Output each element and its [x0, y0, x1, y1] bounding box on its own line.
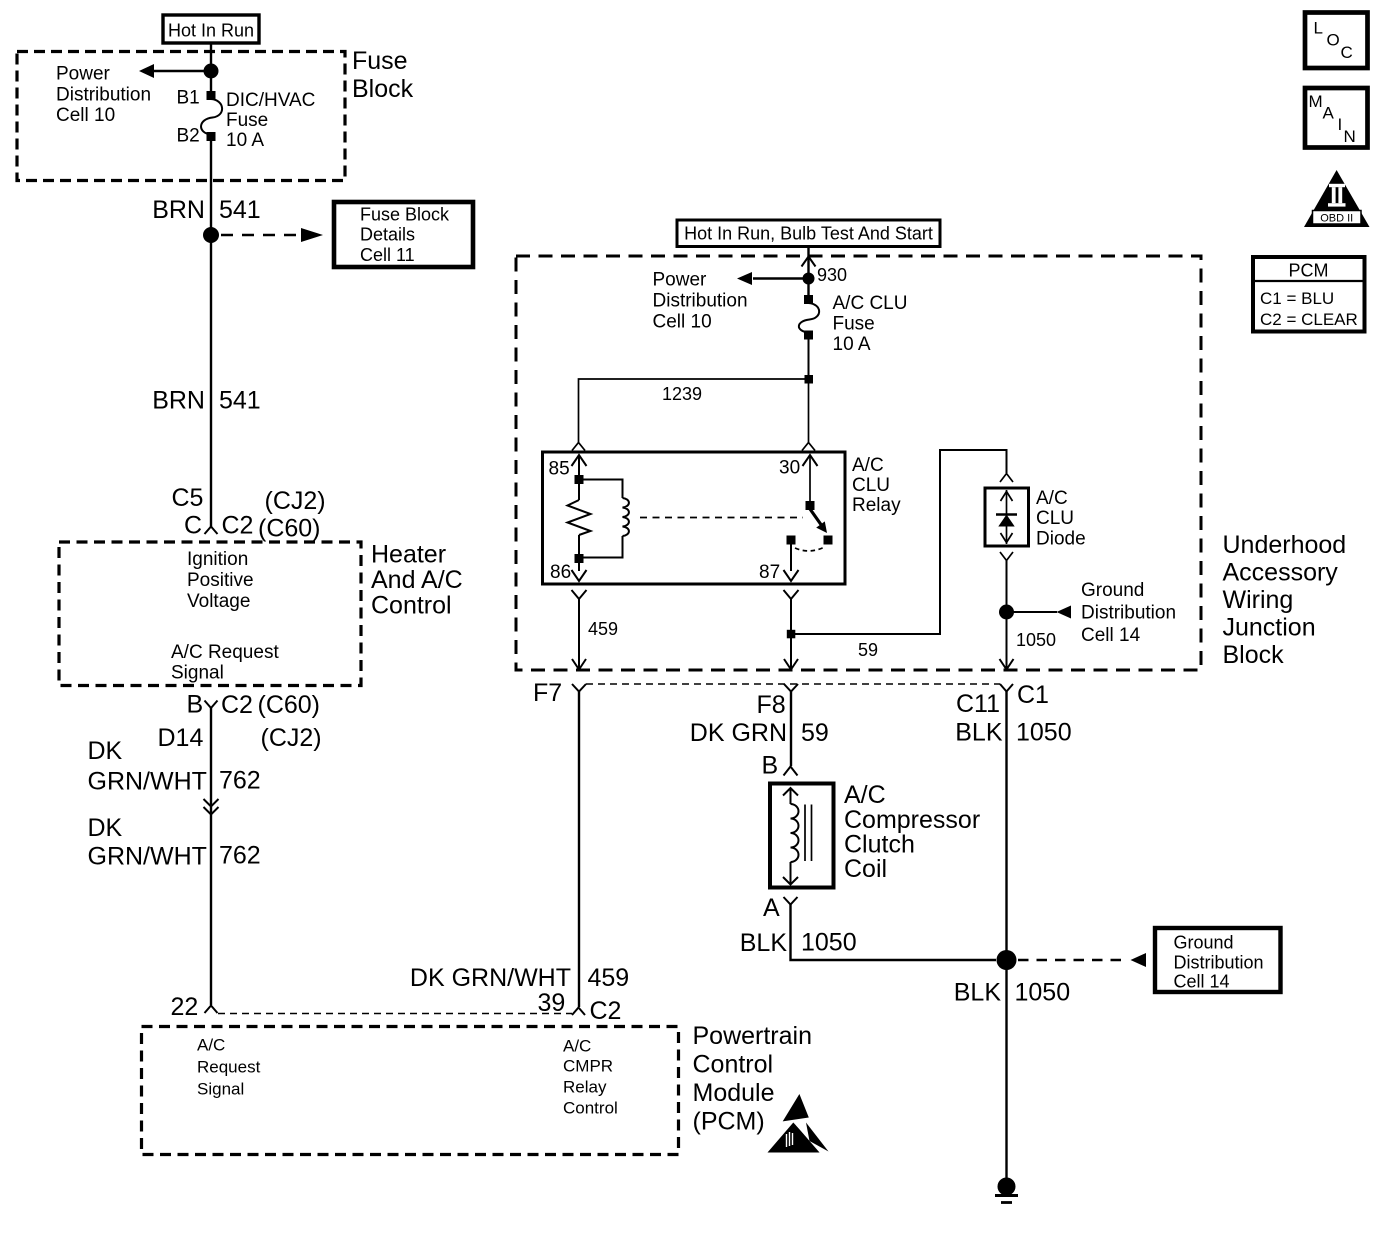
svg-text:(CJ2): (CJ2)	[261, 724, 322, 752]
label Ground Distribution Cell 14 (inside block)	[1081, 580, 1176, 646]
svg-text:Coil: Coil	[844, 855, 887, 883]
svg-text:930: 930	[817, 265, 847, 285]
wire 459 down through junction block edge	[572, 599, 586, 670]
svg-text:541: 541	[219, 196, 261, 224]
ground G1 symbol	[995, 1178, 1018, 1203]
label A/C CLU Diode	[1036, 488, 1086, 550]
svg-text:Underhood: Underhood	[1223, 531, 1347, 559]
svg-text:Distribution: Distribution	[1081, 603, 1176, 624]
svg-text:Ground: Ground	[1174, 933, 1234, 953]
svg-text:BLK: BLK	[740, 929, 788, 957]
MAIN legend box	[1305, 88, 1368, 148]
svg-text:DIC/HVAC: DIC/HVAC	[226, 90, 315, 111]
connector at coil pin B	[784, 767, 798, 776]
svg-text:Junction: Junction	[1223, 614, 1316, 642]
wire 1050 inside junction block	[1000, 561, 1014, 670]
svg-text:(CJ2): (CJ2)	[265, 487, 326, 515]
svg-text:C2: C2	[221, 691, 253, 719]
label A/C CLU Relay	[852, 455, 901, 516]
node Hot In Run label box	[163, 15, 259, 43]
svg-text:30: 30	[779, 458, 800, 479]
label Underhood Accessory Wiring Junction Block	[1223, 531, 1347, 669]
svg-text:Hot In Run: Hot In Run	[168, 21, 254, 41]
label A/C Request Signal (heater box)	[171, 642, 279, 684]
svg-text:C2: C2	[222, 512, 254, 540]
svg-text:Fuse: Fuse	[226, 110, 268, 131]
PCM connector legend box	[1253, 257, 1365, 332]
label Fuse Block	[352, 47, 414, 103]
connector caret above diode	[1000, 474, 1013, 483]
svg-text:BRN: BRN	[152, 196, 205, 224]
connector caret relay pin 85 feed	[572, 443, 585, 451]
svg-text:DK: DK	[88, 737, 123, 765]
label BLK 1050 (below coil)	[740, 929, 857, 958]
svg-text:C: C	[1341, 43, 1353, 62]
svg-text:C1 = BLU: C1 = BLU	[1260, 289, 1334, 308]
svg-text:Control: Control	[693, 1051, 774, 1079]
svg-text:Hot In Run, Bulb Test And Star: Hot In Run, Bulb Test And Start	[684, 224, 933, 244]
svg-text:N: N	[1344, 127, 1356, 146]
svg-text:F7: F7	[533, 679, 562, 707]
node Fuse Block Details Cell 11 reference box	[334, 202, 473, 267]
svg-text:Cell 11: Cell 11	[360, 245, 415, 265]
svg-text:22: 22	[171, 993, 199, 1021]
connector V below relay pin 87	[784, 590, 799, 599]
svg-text:(C60): (C60)	[258, 691, 321, 719]
svg-text:A/C Request: A/C Request	[171, 642, 279, 663]
svg-text:Details: Details	[360, 225, 415, 245]
svg-text:CLU: CLU	[1036, 508, 1074, 529]
svg-text:459: 459	[588, 964, 630, 992]
svg-text:87: 87	[759, 562, 780, 583]
connector caret at heater box input	[205, 527, 218, 535]
wire thin dashed PCM connector line	[218, 1013, 572, 1015]
svg-text:Cell 10: Cell 10	[56, 105, 115, 126]
node branch junction square	[805, 375, 814, 384]
wire BLK 1050 main ground wire	[1005, 692, 1007, 1179]
svg-text:762: 762	[219, 767, 261, 795]
wire DK GRN 59 from F8 to coil	[790, 692, 792, 767]
svg-text:M: M	[1309, 92, 1323, 111]
svg-text:CLU: CLU	[852, 475, 890, 496]
svg-text:Power: Power	[56, 64, 111, 85]
svg-text:C11: C11	[956, 690, 1000, 718]
svg-text:Signal: Signal	[171, 663, 224, 684]
svg-text:Voltage: Voltage	[187, 591, 250, 612]
svg-text:Fuse Block: Fuse Block	[360, 205, 450, 225]
underhood junction block dashed box	[516, 256, 1201, 670]
svg-text:PCM: PCM	[1289, 261, 1329, 281]
label DK GRN/WHT 762 (lower)	[88, 814, 261, 871]
svg-text:OBD II: OBD II	[1320, 213, 1353, 225]
relay actuation dashed link	[640, 517, 803, 519]
fuse F2 A/C CLU 10A	[799, 295, 819, 340]
label Powertrain Control Module (PCM)	[693, 1022, 813, 1136]
LOC legend box	[1305, 13, 1368, 69]
label Power Distribution Cell 10 (left)	[56, 64, 151, 127]
label DIC/HVAC Fuse 10 A	[226, 90, 315, 151]
svg-text:C2 = CLEAR: C2 = CLEAR	[1260, 310, 1358, 329]
relay K1 A/C CLU Relay box	[543, 452, 846, 584]
svg-text:Distribution: Distribution	[653, 291, 748, 312]
label Power Distribution Cell 10 (right)	[653, 270, 748, 333]
svg-text:Relay: Relay	[563, 1078, 607, 1097]
svg-text:1050: 1050	[1016, 719, 1072, 747]
connector V below diode	[1000, 552, 1013, 561]
svg-text:C5: C5	[172, 484, 204, 512]
wire 59 over to diode branch	[791, 450, 1007, 634]
relay coil terminal 86 arrow	[572, 554, 587, 581]
ESD sensitive device symbol	[768, 1094, 829, 1154]
wire DK GRN/WHT 459 from F7 to PCM	[578, 692, 580, 1008]
wire circuit 1239 branch	[579, 379, 809, 442]
A/C compressor clutch coil box	[770, 784, 834, 888]
svg-text:A/C: A/C	[197, 1036, 225, 1055]
svg-text:Request: Request	[197, 1058, 261, 1077]
svg-text:A/C CLU: A/C CLU	[833, 293, 908, 314]
svg-text:Control: Control	[563, 1099, 618, 1118]
svg-text:762: 762	[219, 842, 261, 870]
pin C5 / C2 connector labels	[172, 484, 326, 543]
svg-text:A/C: A/C	[852, 455, 884, 476]
svg-text:Diode: Diode	[1036, 529, 1086, 550]
svg-text:Power: Power	[653, 270, 708, 291]
node ground distribution junction dot	[999, 605, 1014, 620]
svg-text:A/C: A/C	[1036, 488, 1068, 509]
svg-text:Control: Control	[371, 592, 452, 620]
svg-text:DK: DK	[88, 814, 123, 842]
wire arrow to Power Distribution	[139, 64, 211, 78]
wire arrow to Ground Distribution Cell 14 (inside block)	[1007, 606, 1072, 619]
svg-text:59: 59	[858, 640, 878, 660]
svg-text:BLK: BLK	[954, 979, 1002, 1007]
svg-text:DK GRN: DK GRN	[690, 719, 787, 747]
splice double chevron on wire 762	[204, 799, 219, 815]
svg-text:Relay: Relay	[852, 495, 901, 516]
svg-text:GRN/WHT: GRN/WHT	[88, 768, 207, 796]
svg-text:(C60): (C60)	[258, 515, 321, 543]
svg-text:C: C	[184, 512, 202, 540]
connector caret relay pin 30 feed	[802, 443, 815, 451]
label A/C CMPR Relay Control (PCM)	[563, 1037, 618, 1118]
relay coil winding	[584, 480, 629, 558]
svg-text:Fuse: Fuse	[833, 314, 875, 335]
svg-text:10 A: 10 A	[226, 130, 264, 151]
powertrain control module dashed box	[142, 1027, 679, 1155]
connector Y at C1	[1000, 684, 1013, 692]
svg-text:Wiring: Wiring	[1223, 586, 1294, 614]
label BLK 1050 (below C11)	[955, 719, 1071, 747]
svg-text:F8: F8	[757, 691, 786, 719]
wire BLK 1050 from coil A to ground junction	[791, 905, 997, 961]
svg-text:And A/C: And A/C	[371, 566, 463, 594]
svg-text:Module: Module	[693, 1079, 775, 1107]
svg-text:B: B	[187, 691, 204, 719]
svg-text:Fuse: Fuse	[352, 47, 408, 75]
node splice dot to Fuse Block Details	[203, 227, 219, 243]
node ground junction dot	[997, 950, 1017, 970]
svg-text:GRN/WHT: GRN/WHT	[88, 843, 207, 871]
svg-text:Block: Block	[1223, 641, 1285, 669]
connector Y below heater box	[205, 701, 218, 709]
relay switch pin 30 arm	[803, 455, 828, 533]
label BLK 1050 (lower)	[954, 979, 1070, 1007]
svg-text:1239: 1239	[662, 384, 702, 404]
svg-text:C1: C1	[1017, 681, 1049, 709]
svg-text:C2: C2	[590, 997, 622, 1025]
svg-text:BRN: BRN	[152, 387, 205, 415]
svg-text:459: 459	[588, 619, 618, 639]
svg-text:B2: B2	[177, 126, 200, 147]
svg-text:Heater: Heater	[371, 541, 446, 569]
svg-text:1050: 1050	[1016, 630, 1056, 650]
svg-text:86: 86	[550, 562, 571, 583]
fuse F1 DIC/HVAC 10A	[201, 91, 222, 141]
svg-text:Block: Block	[352, 75, 414, 103]
svg-text:L: L	[1314, 19, 1323, 38]
wire thin dashed junction block connector line	[586, 683, 1000, 685]
svg-text:A: A	[1323, 104, 1335, 123]
heater and A/C control dashed box	[59, 542, 361, 686]
node Hot In Run Bulb Test And Start label box	[677, 220, 940, 247]
svg-text:A: A	[763, 894, 780, 922]
svg-text:BLK: BLK	[955, 719, 1003, 747]
svg-text:Distribution: Distribution	[1174, 953, 1264, 973]
label DK GRN/WHT 762 (upper)	[88, 737, 261, 796]
connector caret at PCM pin 39/C2	[572, 1008, 585, 1016]
wire dashed reference to Ground Distribution box	[1018, 953, 1146, 967]
svg-text:85: 85	[549, 459, 570, 480]
connector Y at F7	[572, 684, 586, 692]
connector Y at coil pin A	[784, 897, 798, 905]
pin B / C2 (C60) (CJ2) labels below heater box	[158, 691, 322, 753]
svg-text:Ignition: Ignition	[187, 549, 248, 570]
svg-text:39: 39	[538, 989, 566, 1017]
svg-text:B: B	[762, 752, 779, 780]
label DK GRN/WHT 459	[410, 964, 629, 992]
node junction dot at fuse feed	[204, 64, 219, 79]
svg-text:10 A: 10 A	[833, 334, 871, 355]
label Ignition Positive Voltage	[187, 549, 254, 612]
svg-text:Distribution: Distribution	[56, 85, 151, 106]
wire 59 down from relay 87	[784, 599, 798, 670]
svg-text:541: 541	[219, 387, 261, 415]
wire from fuse to 1239 branch junction	[808, 340, 810, 380]
svg-text:O: O	[1327, 31, 1340, 50]
connector Y at F8	[784, 684, 798, 692]
wire feed into junction block with up arrow	[802, 247, 816, 296]
connector caret at PCM pin 22	[205, 1006, 218, 1014]
svg-text:1050: 1050	[1015, 979, 1071, 1007]
wire from Hot In Run down to fuse B1	[210, 43, 212, 91]
relay coil terminal 85 arrow	[572, 455, 587, 484]
svg-text:Positive: Positive	[187, 570, 254, 591]
label BRN 541 (lower)	[152, 387, 261, 415]
node junction dot 930	[803, 273, 815, 285]
wire dashed reference arrow to Fuse Block Details	[221, 228, 323, 242]
svg-text:(PCM): (PCM)	[693, 1108, 765, 1136]
connector V below relay pin 86	[572, 590, 587, 599]
svg-text:Cell 14: Cell 14	[1174, 972, 1230, 992]
svg-text:DK GRN/WHT: DK GRN/WHT	[410, 964, 571, 992]
node Ground Distribution Cell 14 reference box	[1155, 928, 1281, 992]
svg-text:B1: B1	[177, 88, 200, 109]
wire arrow to Power Distribution (right)	[737, 272, 809, 285]
svg-text:A/C: A/C	[563, 1037, 591, 1056]
fuse block dashed box	[17, 52, 345, 181]
label Heater And A/C Control	[371, 541, 463, 620]
svg-text:Accessory: Accessory	[1223, 559, 1339, 587]
wire BRN 541 from fuse down to connector C5	[210, 141, 212, 527]
svg-text:1050: 1050	[801, 929, 857, 957]
OBD II triangle symbol	[1304, 170, 1370, 227]
svg-text:CMPR: CMPR	[563, 1057, 613, 1076]
wire DK GRN/WHT 762 down to PCM pin 22	[210, 708, 212, 1005]
label DK GRN 59	[690, 719, 829, 747]
svg-text:I: I	[1338, 115, 1343, 134]
resistor inside relay	[568, 484, 591, 554]
label A/C Compressor Clutch Coil	[844, 781, 980, 883]
svg-text:D14: D14	[158, 724, 204, 752]
label A/C Request Signal (PCM)	[197, 1036, 261, 1099]
label BRN 541 (upper)	[152, 196, 261, 224]
diode D1 A/C CLU Diode box	[985, 488, 1029, 546]
svg-text:59: 59	[801, 719, 829, 747]
node junction square on 59	[787, 630, 796, 639]
svg-text:Ground: Ground	[1081, 580, 1144, 601]
svg-text:Signal: Signal	[197, 1080, 244, 1099]
svg-text:Powertrain: Powertrain	[693, 1022, 813, 1050]
relay switch throw contacts	[784, 536, 833, 582]
label A/C CLU Fuse 10 A	[833, 293, 908, 355]
svg-text:A/C: A/C	[844, 781, 886, 809]
svg-text:Cell 10: Cell 10	[653, 312, 712, 333]
svg-text:Cell 14: Cell 14	[1081, 625, 1141, 646]
